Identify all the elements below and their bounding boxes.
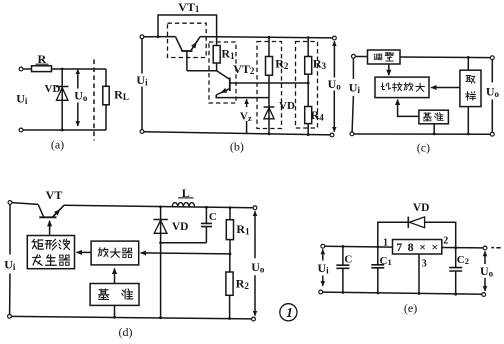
wire R to RL top (a) bbox=[52, 68, 107, 70]
wire VD anode to C bottom (d) bbox=[161, 242, 207, 244]
wire dashed box VT1 (b) bbox=[168, 23, 207, 57]
node input+ terminal (b) bbox=[140, 35, 144, 39]
wire right rail lower (c) bbox=[491, 100, 493, 133]
resistor R bbox=[32, 66, 52, 72]
wire arrow adjust to compare (c) bbox=[388, 64, 390, 75]
block amplifier (d) bbox=[91, 241, 139, 265]
wire left rail lower (d) bbox=[9, 274, 11, 315]
node VD ground junction (d) bbox=[159, 316, 162, 319]
wire Uo arrow upper (e) bbox=[484, 251, 486, 264]
node input+ terminal (c) bbox=[352, 54, 356, 58]
node R2 top junction (b) bbox=[268, 36, 271, 39]
wire arrow reference to compare (c) bbox=[398, 100, 419, 117]
svg-text:(a): (a) bbox=[51, 138, 64, 152]
node R3 top junction (b) bbox=[307, 36, 310, 39]
node R2 ground junction (d) bbox=[228, 317, 231, 320]
resistor R1 (b) bbox=[213, 46, 220, 71]
resistor RL bbox=[103, 69, 109, 130]
wire left rail lower (c) bbox=[352, 96, 353, 132]
zener diode VD (b) bbox=[264, 107, 275, 134]
wire left rail upper (b) bbox=[141, 39, 143, 74]
wire Uo arrow lower (b) bbox=[333, 91, 335, 132]
node output+ terminal (e) bbox=[483, 246, 487, 250]
node output- terminal (e) bbox=[482, 293, 486, 297]
transistor Q VT1 bbox=[175, 37, 200, 71]
value label R (a) bbox=[36, 52, 49, 66]
wire sample feed drop (c) bbox=[467, 57, 469, 70]
svg-text:(c): (c) bbox=[417, 141, 430, 155]
block label fangdaqi (amplifier) (d) bbox=[98, 248, 132, 258]
wire dashed box R1 VT2 (b) bbox=[209, 42, 236, 103]
wire Uo arrow lower (a) bbox=[77, 103, 79, 127]
wire bottom (a) bbox=[23, 129, 106, 131]
wire arrow feedback to amplifier (d) bbox=[141, 253, 230, 254]
node input- terminal (b) bbox=[140, 130, 144, 134]
block label quyang (sampling) (c) bbox=[466, 75, 476, 100]
transistor Q VT2 bbox=[216, 71, 269, 98]
resistor R1 (d) bbox=[226, 208, 233, 254]
node R1 top junction (d) bbox=[229, 206, 232, 209]
transistor Q VT bbox=[38, 205, 64, 218]
wire left rail upper (d) bbox=[9, 205, 11, 255]
wire Uo arrow lower (e) bbox=[484, 278, 486, 291]
wire R1 feed bypass (b) bbox=[158, 15, 217, 46]
wire top rail right (d) bbox=[64, 205, 253, 208]
wire top rail input side (e) bbox=[325, 245, 393, 248]
wire top rail output side (e) bbox=[442, 247, 483, 249]
node VD top junction (d) bbox=[159, 206, 162, 209]
node output- terminal (b) bbox=[330, 133, 334, 137]
node C bottom junction (e) bbox=[342, 291, 345, 294]
svg-text:VD: VD bbox=[45, 83, 61, 95]
wire output continuation dashes (e) bbox=[491, 247, 500, 249]
node pin 3 ground junction (e) bbox=[418, 292, 421, 295]
block label tiaozheng (adjust) (c) bbox=[374, 52, 393, 61]
resistor R4 bbox=[305, 107, 312, 135]
wire arrow amplifier to generator (d) bbox=[77, 251, 92, 253]
wire VT2 base to divider tap (b) bbox=[230, 82, 308, 84]
wire arrow sampling to compare (c) bbox=[431, 87, 460, 89]
wire left rail lower (b) bbox=[141, 87, 143, 130]
wire bottom rail (b) bbox=[144, 132, 330, 135]
node input- terminal (c) bbox=[350, 132, 354, 136]
svg-text:1: 1 bbox=[286, 306, 293, 321]
block label jizhun (reference) (c) bbox=[423, 112, 443, 120]
wire Ui arrow upper (e) bbox=[322, 249, 324, 260]
wire dashed load boundary (a) bbox=[93, 60, 95, 141]
node output- terminal (d) bbox=[252, 317, 256, 321]
resistor R2 (d) bbox=[226, 254, 233, 319]
capacitor C (e) bbox=[336, 246, 349, 292]
svg-text:VD: VD bbox=[279, 100, 295, 112]
wire adjust box to output terminal (c) bbox=[400, 56, 490, 59]
svg-text:C1: C1 bbox=[379, 255, 391, 267]
wire right rail upper (c) bbox=[491, 60, 493, 83]
node VD bottom junction (b) bbox=[268, 132, 271, 135]
node input- terminal (a) bbox=[19, 128, 23, 132]
svg-text:2: 2 bbox=[443, 236, 448, 247]
node reference ground junction (d) bbox=[113, 316, 116, 319]
node VD top junction (a) bbox=[61, 68, 64, 71]
svg-text:C2: C2 bbox=[457, 254, 469, 266]
block reference (d) bbox=[90, 284, 139, 306]
wire Vz arrow lower to rail (b) bbox=[246, 121, 248, 133]
resistor R3 bbox=[305, 38, 312, 107]
node output- terminal (c) bbox=[490, 132, 494, 136]
block adjust U1 bbox=[368, 50, 401, 64]
wire top rail left (b) bbox=[144, 36, 175, 38]
block label bijiaofangda (compare amplify) (c) bbox=[381, 83, 424, 92]
wire Vz arrow upper (b) bbox=[246, 99, 248, 107]
node output+ terminal (c) bbox=[490, 56, 494, 60]
svg-text:Vz: Vz bbox=[240, 111, 252, 124]
zener diode VD (a) bbox=[56, 69, 68, 130]
wire left rail upper (c) bbox=[352, 58, 354, 79]
node bypass junction (b) bbox=[157, 35, 160, 38]
diode VD (d) bbox=[153, 207, 167, 318]
block sampling U3 bbox=[460, 70, 481, 106]
svg-text:C: C bbox=[209, 211, 217, 223]
wire arrow generator to VT base (d) bbox=[49, 221, 51, 235]
wire Ui arrow lower (e) bbox=[322, 276, 324, 287]
node sample feed junction (c) bbox=[467, 56, 470, 59]
svg-text:1: 1 bbox=[383, 238, 388, 249]
node output+ terminal (d) bbox=[253, 206, 257, 210]
wire bottom rail (e) bbox=[323, 292, 484, 294]
wire dashed box R2 VD (b) bbox=[257, 42, 282, 129]
svg-text:VD: VD bbox=[413, 202, 430, 214]
inductor L bbox=[172, 203, 194, 207]
node input- terminal (e) bbox=[319, 290, 323, 294]
block label juxingbo (square wave) line1 (d) bbox=[32, 239, 70, 250]
wire Uo arrow upper (a) bbox=[77, 69, 79, 88]
wire top-left to R (a) bbox=[23, 68, 32, 70]
svg-text:VT: VT bbox=[46, 188, 63, 202]
wire bottom rail (d) bbox=[12, 316, 252, 319]
wire top rail left (d) bbox=[12, 203, 38, 205]
wire Uo arrow lower (d) bbox=[254, 275, 256, 316]
value label L (d) bbox=[178, 186, 194, 200]
block compare-amplify U2 bbox=[375, 77, 429, 98]
block label jizhun (reference) (d) bbox=[99, 289, 133, 300]
node C top junction (d) bbox=[205, 206, 208, 209]
node VD anode junction (d) bbox=[159, 241, 162, 244]
block square-wave generator (d) bbox=[27, 236, 74, 269]
resistor R2 (b) bbox=[266, 37, 273, 107]
wire Uo arrow upper (d) bbox=[254, 211, 256, 258]
wire pin 3 to ground (e) bbox=[418, 254, 420, 294]
node pin 1 junction (e) bbox=[376, 246, 379, 249]
diode VD (e) bbox=[408, 217, 424, 228]
wire VD bypass right riser (e) bbox=[425, 222, 456, 247]
wire top rail right (b) bbox=[200, 37, 332, 38]
node input+ terminal (d) bbox=[8, 201, 12, 205]
wire reference to ground rail (d) bbox=[114, 305, 116, 317]
wire Uo arrow upper (b) bbox=[333, 41, 335, 77]
svg-text:(d): (d) bbox=[119, 325, 133, 339]
wire top left to adjust box (c) bbox=[355, 56, 367, 58]
capacitor C (d) bbox=[201, 207, 212, 243]
svg-text:(b): (b) bbox=[230, 140, 244, 154]
node output+ terminal (b) bbox=[333, 36, 337, 40]
wire reference to bottom rail (c) bbox=[433, 124, 435, 134]
svg-text:VD: VD bbox=[172, 221, 189, 233]
wire bottom rail (c) bbox=[354, 133, 490, 135]
svg-text:C: C bbox=[344, 254, 352, 266]
capacitor C2 (e) bbox=[449, 248, 462, 295]
node C1 bottom junction (e) bbox=[376, 292, 379, 295]
wire VT1 base to R1 bottom (b) bbox=[187, 70, 217, 72]
node input+ terminal (e) bbox=[321, 244, 325, 248]
node input- terminal (d) bbox=[8, 314, 12, 318]
node VD bottom junction (a) bbox=[61, 129, 64, 132]
node feedback tap junction (d) bbox=[229, 253, 232, 256]
figure number circled 1 bbox=[280, 304, 297, 322]
node C2 top junction (e) bbox=[454, 246, 457, 249]
capacitor C1 (e) bbox=[371, 247, 384, 293]
svg-text:(e): (e) bbox=[404, 301, 417, 315]
wire sampling to bottom rail (c) bbox=[467, 107, 469, 134]
block reference U4 bbox=[419, 110, 449, 124]
node C2 bottom junction (e) bbox=[454, 293, 457, 296]
wire dashed box R3 R4 (b) bbox=[296, 42, 318, 129]
node reference ground junction (c) bbox=[433, 133, 436, 136]
node divider tap junction (b) bbox=[307, 82, 310, 85]
node C top junction (e) bbox=[342, 245, 345, 248]
node R4 bottom junction (b) bbox=[307, 133, 310, 136]
node sampling ground junction (c) bbox=[467, 133, 470, 136]
block label fashengqi (generator) line2 (d) bbox=[33, 255, 70, 265]
IC regulator 78xx bbox=[393, 240, 442, 255]
svg-text:3: 3 bbox=[422, 259, 427, 270]
wire VD bypass left riser (e) bbox=[378, 222, 409, 247]
node input+ terminal (a) bbox=[19, 67, 23, 71]
wire arrow reference to amplifier (d) bbox=[114, 268, 116, 283]
